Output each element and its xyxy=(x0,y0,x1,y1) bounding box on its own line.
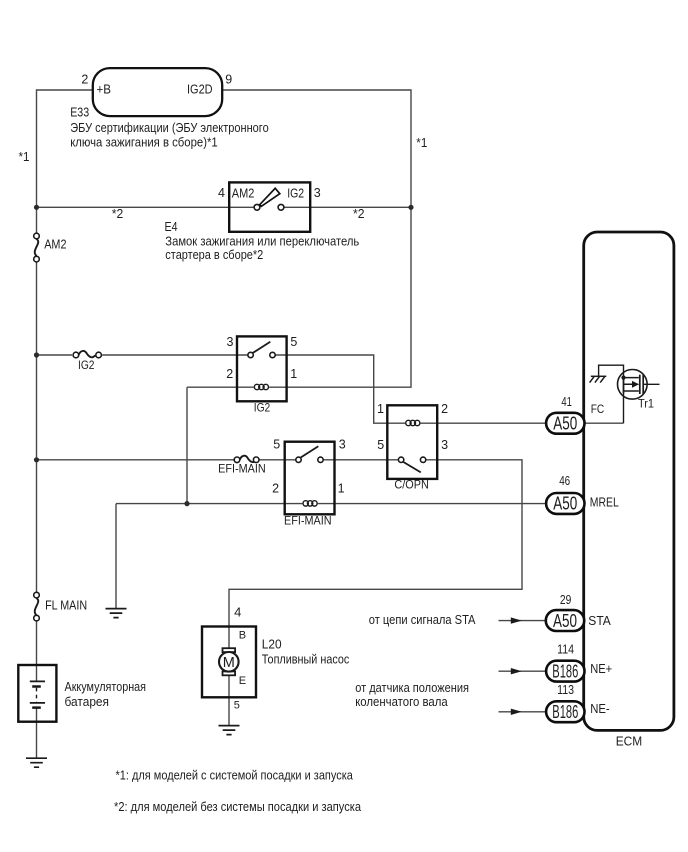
svg-text:Аккумуляторная: Аккумуляторная xyxy=(65,679,147,694)
svg-text:L20: L20 xyxy=(262,636,282,651)
svg-text:A50: A50 xyxy=(553,611,577,631)
svg-text:1: 1 xyxy=(290,367,297,381)
svg-text:*1: *1 xyxy=(416,135,427,150)
svg-text:*2: для моделей без системы по: *2: для моделей без системы посадки и за… xyxy=(114,799,362,814)
svg-text:E: E xyxy=(239,675,246,687)
svg-text:*1: *1 xyxy=(19,149,30,164)
svg-text:114: 114 xyxy=(557,641,574,656)
svg-text:коленчатого вала: коленчатого вала xyxy=(355,694,448,709)
svg-text:B: B xyxy=(239,629,246,641)
svg-text:ЭБУ сертификации (ЭБУ электрон: ЭБУ сертификации (ЭБУ электронного xyxy=(70,120,269,135)
svg-text:41: 41 xyxy=(561,394,572,409)
svg-text:AM2: AM2 xyxy=(44,238,66,252)
svg-text:*2: *2 xyxy=(112,206,124,221)
svg-text:E4: E4 xyxy=(165,219,178,234)
svg-text:FL MAIN: FL MAIN xyxy=(45,598,87,612)
svg-text:+B: +B xyxy=(97,82,112,97)
svg-text:3: 3 xyxy=(314,186,321,200)
svg-text:ECM: ECM xyxy=(616,733,643,748)
svg-text:2: 2 xyxy=(226,367,233,381)
svg-text:B186: B186 xyxy=(552,661,578,681)
svg-text:4: 4 xyxy=(234,605,241,620)
svg-text:EFI-MAIN: EFI-MAIN xyxy=(284,514,332,528)
svg-text:3: 3 xyxy=(339,437,346,451)
svg-text:3: 3 xyxy=(227,335,234,349)
svg-text:AM2: AM2 xyxy=(232,186,255,201)
svg-text:2: 2 xyxy=(441,402,448,416)
svg-text:IG2: IG2 xyxy=(78,358,95,372)
svg-text:Топливный насос: Топливный насос xyxy=(262,651,350,666)
svg-text:2: 2 xyxy=(81,72,88,86)
svg-text:A50: A50 xyxy=(553,494,577,514)
svg-text:E33: E33 xyxy=(70,105,89,120)
svg-text:1: 1 xyxy=(377,402,384,416)
svg-text:FC: FC xyxy=(591,402,605,416)
svg-text:A50: A50 xyxy=(553,414,577,434)
svg-text:3: 3 xyxy=(441,438,448,452)
svg-text:*2: *2 xyxy=(353,206,365,221)
svg-text:2: 2 xyxy=(272,482,279,496)
svg-text:29: 29 xyxy=(560,592,571,607)
svg-text:Tr1: Tr1 xyxy=(638,397,654,411)
svg-text:M: M xyxy=(223,655,235,671)
svg-text:MREL: MREL xyxy=(590,494,619,509)
svg-text:1: 1 xyxy=(338,482,345,496)
svg-text:B186: B186 xyxy=(552,702,578,722)
svg-text:от цепи сигнала STA: от цепи сигнала STA xyxy=(369,612,476,627)
svg-text:5: 5 xyxy=(377,438,384,452)
svg-text:C/OPN: C/OPN xyxy=(394,478,428,492)
svg-text:4: 4 xyxy=(218,186,225,200)
svg-text:стартера в сборе*2: стартера в сборе*2 xyxy=(165,247,263,262)
svg-text:IG2D: IG2D xyxy=(187,82,213,97)
svg-text:5: 5 xyxy=(234,699,240,711)
svg-text:NE-: NE- xyxy=(590,701,610,716)
svg-text:STA: STA xyxy=(588,613,611,628)
svg-text:5: 5 xyxy=(273,437,280,451)
svg-text:NE+: NE+ xyxy=(590,661,612,676)
svg-text:113: 113 xyxy=(557,682,574,697)
svg-text:5: 5 xyxy=(290,335,297,349)
svg-text:батарея: батарея xyxy=(65,694,110,709)
svg-text:9: 9 xyxy=(225,72,232,86)
svg-text:46: 46 xyxy=(559,473,570,488)
svg-text:от датчика положения: от датчика положения xyxy=(355,680,469,695)
svg-text:EFI-MAIN: EFI-MAIN xyxy=(218,462,266,476)
svg-text:IG2: IG2 xyxy=(287,186,304,201)
svg-text:ключа зажигания в сборе)*1: ключа зажигания в сборе)*1 xyxy=(70,134,218,149)
svg-text:IG2: IG2 xyxy=(254,401,271,415)
svg-text:*1: для моделей с системой пос: *1: для моделей с системой посадки и зап… xyxy=(116,767,354,782)
